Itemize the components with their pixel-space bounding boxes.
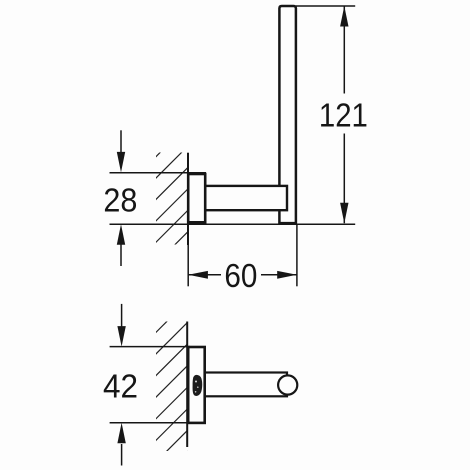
dim 28 arrow down (above) <box>117 130 125 172</box>
dim 121 arrow down <box>340 203 348 224</box>
dim 42 bottom extension line <box>110 422 190 424</box>
wall hatching view 1 <box>150 123 190 291</box>
vertical bar (holder rod, side view) <box>279 6 296 223</box>
dim 121 top extension line <box>296 5 355 7</box>
dim 28 arrow up (below) <box>117 224 125 266</box>
dim 42 top extension line <box>110 346 190 348</box>
dim 60 arrow left <box>188 271 208 279</box>
GROHE logo blob on plate <box>193 375 203 396</box>
wall face line view 2 <box>186 322 188 448</box>
dim 60 left extension line <box>187 245 189 286</box>
dim 121 arrow up <box>340 6 348 27</box>
arm rod (top view) <box>205 373 287 397</box>
dim 42 arrow down (above) <box>117 304 125 347</box>
dim bottom reference extension line (28 &amp; 121) <box>110 223 356 225</box>
horizontal arm (side view) <box>205 186 287 210</box>
dim 60 right extension line <box>296 225 298 287</box>
svg-text:60: 60 <box>224 258 257 295</box>
dim 28 top extension line <box>110 172 207 174</box>
wall face line view 1 <box>187 153 189 245</box>
dim 60 arrow right <box>277 271 297 279</box>
dim 60 dimension line <box>188 274 297 276</box>
svg-text:121: 121 <box>319 98 368 135</box>
wall hatching view 2 <box>150 298 190 470</box>
dim 121 dimension line <box>343 6 345 223</box>
dim 42 arrow up (below) <box>117 423 125 466</box>
wall plate (top view) <box>188 347 205 423</box>
wall plate (side view) <box>188 174 205 222</box>
svg-text:28: 28 <box>103 182 137 219</box>
svg-text:42: 42 <box>103 369 138 406</box>
bar cross-section circle (top view) <box>278 375 297 394</box>
